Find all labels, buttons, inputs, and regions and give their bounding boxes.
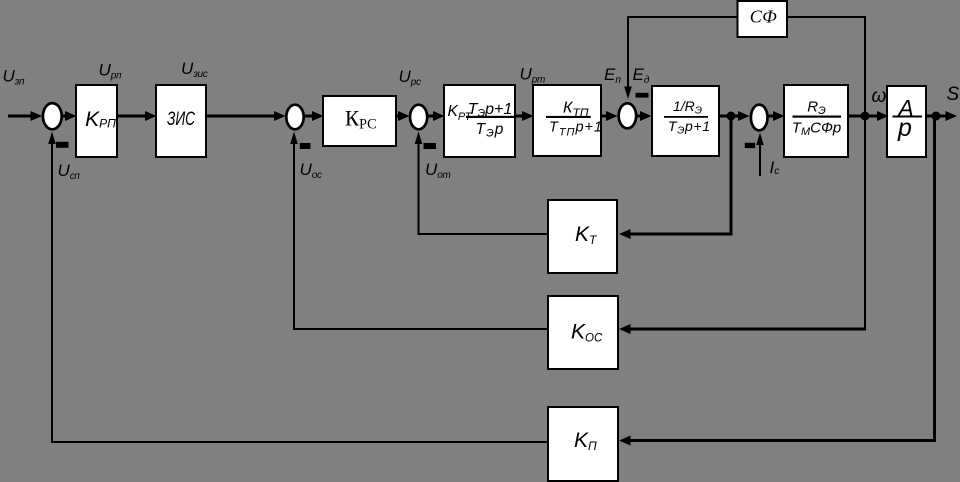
svg-text:Iс: Iс bbox=[770, 158, 780, 177]
svg-text:Uрс: Uрс bbox=[399, 67, 421, 88]
svg-text:Ед: Ед bbox=[633, 65, 650, 86]
svg-text:Uсп: Uсп bbox=[58, 161, 81, 182]
svg-text:Uрп: Uрп bbox=[99, 60, 122, 81]
svg-text:ТМСФр: ТМСФр bbox=[792, 120, 841, 139]
svg-text:Uзис: Uзис bbox=[181, 59, 208, 80]
svg-text:Uос: Uос bbox=[300, 160, 322, 181]
svg-text:ЗИС: ЗИС bbox=[167, 108, 196, 130]
svg-text:S: S bbox=[947, 84, 960, 105]
svg-text:Еп: Еп bbox=[604, 65, 621, 86]
svg-text:Uот: Uот bbox=[425, 160, 450, 181]
svg-text:Uзп: Uзп bbox=[3, 67, 26, 88]
svg-text:р: р bbox=[897, 114, 912, 142]
svg-text:Uрт: Uрт bbox=[520, 65, 545, 86]
svg-text:ТЭр+1: ТЭр+1 bbox=[668, 118, 710, 137]
svg-text:СФ: СФ bbox=[750, 7, 778, 27]
svg-text:ω: ω bbox=[872, 86, 887, 107]
